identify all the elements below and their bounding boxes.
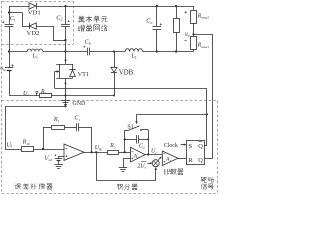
svg-text:S: S: [189, 143, 193, 150]
svg-text:VD1: VD1: [28, 9, 41, 16]
svg-text:VD2: VD2: [26, 30, 39, 37]
svg-text:Clock: Clock: [164, 143, 178, 149]
svg-text:VDB: VDB: [119, 70, 134, 77]
svg-text:R: R: [188, 157, 193, 164]
svg-text:S1: S1: [127, 124, 134, 131]
svg-text:Q: Q: [198, 143, 203, 150]
svg-text:Q: Q: [198, 157, 203, 164]
svg-text:VT1: VT1: [78, 71, 90, 78]
svg-text:GND: GND: [72, 101, 86, 107]
